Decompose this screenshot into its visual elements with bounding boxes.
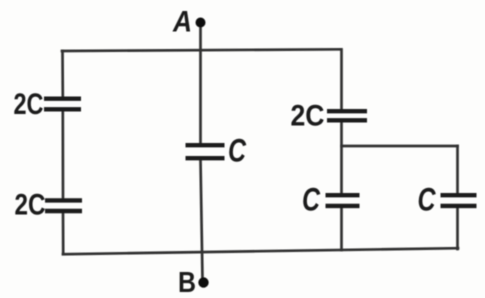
svg-text:A: A (172, 6, 192, 39)
svg-text:C: C (302, 182, 321, 218)
svg-text:2C: 2C (291, 100, 325, 133)
svg-text:B: B (178, 267, 196, 298)
svg-text:C: C (228, 133, 247, 169)
svg-text:2C: 2C (14, 88, 44, 121)
svg-text:2C: 2C (15, 189, 46, 222)
svg-text:C: C (418, 182, 437, 218)
